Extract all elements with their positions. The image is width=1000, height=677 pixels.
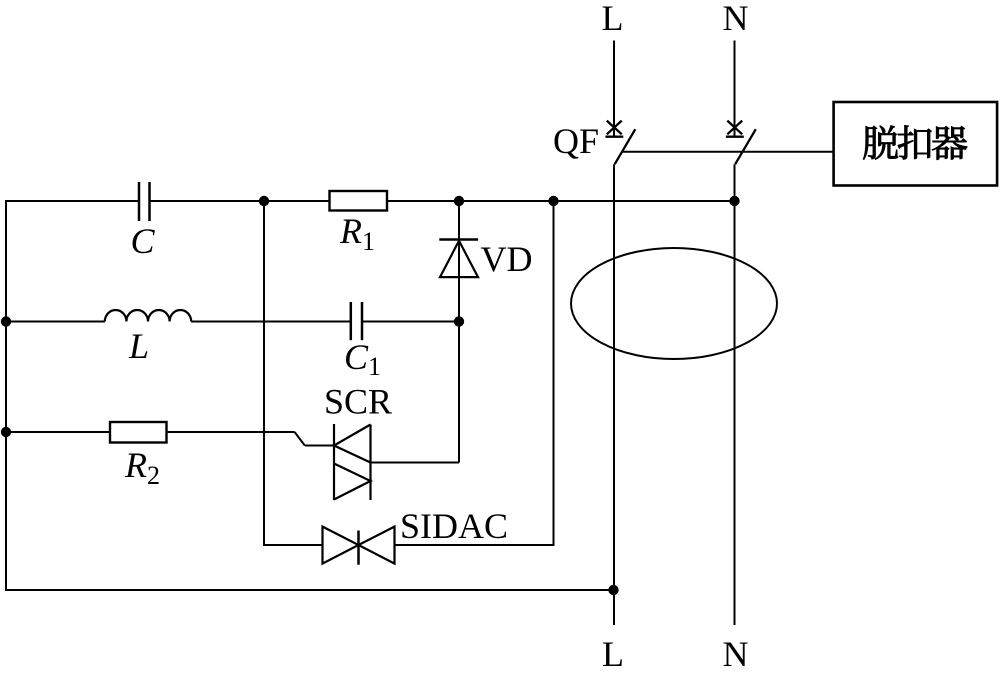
breaker QF fixed contact N (cross)	[726, 121, 744, 137]
svg-text:L: L	[602, 0, 624, 38]
wire top rail node B to node C	[459, 200, 554, 202]
wire SCR cathode lead to VD branch	[371, 462, 460, 464]
svg-text:SCR: SCR	[324, 382, 392, 422]
wire gate jog diagonal	[295, 432, 305, 446]
svg-text:C: C	[130, 221, 155, 261]
svg-text:QF: QF	[553, 121, 599, 161]
wire gate lead to SCR	[305, 445, 334, 447]
svg-text:VD: VD	[481, 239, 533, 279]
wire lower rail from left bus to R2	[5, 431, 110, 433]
wire top rail from C to node A	[150, 200, 265, 202]
node B (junction at VD top)	[454, 196, 464, 206]
node H (bottom rail / L line)	[608, 585, 618, 595]
wire top rail node C to N line	[554, 200, 735, 202]
breaker QF blade N	[735, 129, 756, 164]
svg-text:L: L	[128, 326, 149, 366]
capacitor C1	[351, 302, 362, 340]
wire mid vertical from node A down to SIDAC	[263, 201, 265, 546]
label 脱扣器 (trip unit, drawn as paths)	[863, 125, 967, 159]
node F (junction VD bottom / C1)	[454, 316, 464, 326]
wire top rail node A to R1	[264, 200, 330, 202]
node C (junction at SIDAC riser)	[548, 196, 558, 206]
svg-text:N: N	[723, 0, 749, 38]
wire N line lower	[734, 164, 736, 625]
wire VD branch vertical	[458, 201, 460, 463]
wire left vertical bus	[5, 200, 7, 591]
wire SIDAC row left	[264, 544, 323, 546]
svg-text:SIDAC: SIDAC	[400, 506, 508, 546]
svg-text:L: L	[602, 634, 624, 674]
svg-text:N: N	[723, 634, 749, 674]
thyristor pair SCR	[334, 424, 371, 500]
breaker QF blade L	[615, 129, 636, 164]
trip unit box 脱扣器	[834, 102, 998, 186]
node E (left bus / middle rail)	[1, 316, 11, 326]
resistor R2	[110, 422, 167, 443]
wire SIDAC row right	[395, 544, 554, 546]
breaker QF fixed contact L (cross)	[605, 121, 623, 137]
wire middle rail inductor to capacitor C1	[191, 321, 351, 323]
diode VD	[439, 240, 478, 278]
wire middle rail from left bus to inductor L	[5, 321, 105, 323]
node G (left bus / lower rail)	[1, 427, 11, 437]
wire trip linkage to 脱扣器 box	[622, 151, 833, 153]
wire SIDAC riser to node C	[553, 201, 555, 546]
resistor R1	[330, 191, 388, 211]
wire top rail R1 to node B	[387, 200, 459, 202]
wire top rail from left corner to capacitor C	[5, 200, 139, 202]
wire lower rail R2 to gate jog	[167, 431, 295, 433]
wire N line upper	[734, 41, 736, 137]
node A (junction top-left)	[259, 196, 269, 206]
inductor L	[105, 310, 191, 322]
wire middle rail C1 to node F	[362, 321, 459, 323]
current transformer toroid (ellipse)	[571, 248, 777, 359]
triac SIDAC	[323, 527, 395, 565]
node D (junction on N line)	[729, 196, 739, 206]
capacitor C	[139, 182, 150, 221]
wire bottom rail	[5, 589, 614, 591]
wire L line lower	[613, 164, 615, 625]
wire L line upper	[613, 41, 615, 137]
